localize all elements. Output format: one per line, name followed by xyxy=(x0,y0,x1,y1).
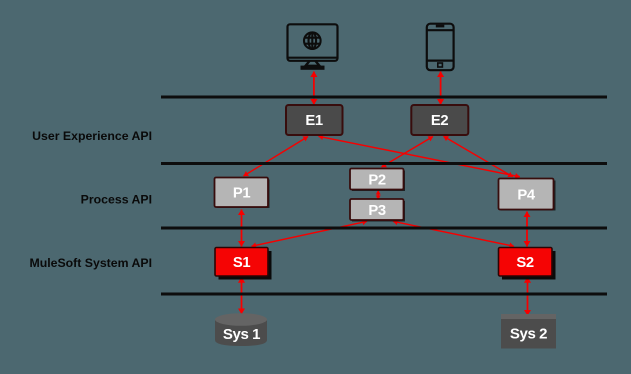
svg-text:E1: E1 xyxy=(305,113,322,129)
svg-text:P4: P4 xyxy=(517,188,535,204)
layer line 4 xyxy=(161,293,607,296)
layer line 1 xyxy=(161,96,607,99)
box P1 xyxy=(215,178,270,209)
arrow phone-E2 xyxy=(440,72,442,105)
arrow E2-P4 xyxy=(444,136,513,177)
svg-text:Sys 2: Sys 2 xyxy=(510,325,547,342)
arrow P3-S1 xyxy=(252,221,368,246)
svg-text:MuleSoft System API: MuleSoft System API xyxy=(29,256,152,270)
svg-text:S1: S1 xyxy=(233,255,250,271)
arrow E1-P1 xyxy=(244,137,309,177)
svg-text:E2: E2 xyxy=(431,113,448,129)
arrow P4-S2 xyxy=(526,212,528,247)
layer line 3 xyxy=(161,227,607,230)
globe xyxy=(304,32,321,49)
box P4 xyxy=(499,179,556,211)
arrow S2-Sys2 xyxy=(527,277,529,315)
box E2 xyxy=(411,105,468,135)
svg-text:P2: P2 xyxy=(368,173,385,189)
monitor icon xyxy=(288,24,338,69)
box P3 xyxy=(350,199,405,222)
svg-text:Sys 1: Sys 1 xyxy=(223,326,260,343)
svg-text:P1: P1 xyxy=(233,186,250,202)
arrow monitor-E1 xyxy=(313,72,315,105)
box S2 xyxy=(499,248,556,280)
arrow E1-P4 xyxy=(319,136,520,177)
box E1 xyxy=(286,105,343,135)
box P2 xyxy=(350,169,405,192)
cylinder Sys 1 xyxy=(215,313,267,346)
box S1 xyxy=(215,248,272,280)
arrow P1-S1 xyxy=(241,210,243,247)
svg-text:S2: S2 xyxy=(516,255,533,271)
svg-text:Process API: Process API xyxy=(81,193,152,207)
arrow P2-P3 xyxy=(377,191,379,200)
svg-text:User Experience API: User Experience API xyxy=(32,129,152,143)
layer line 2 xyxy=(161,162,607,165)
arrow S1-Sys1 xyxy=(241,277,243,314)
arrow P3-S2 xyxy=(393,221,514,246)
box Sys 2 xyxy=(501,314,556,349)
svg-text:P3: P3 xyxy=(368,203,385,219)
arrow E2-P2 xyxy=(382,137,434,168)
phone icon xyxy=(427,24,454,70)
